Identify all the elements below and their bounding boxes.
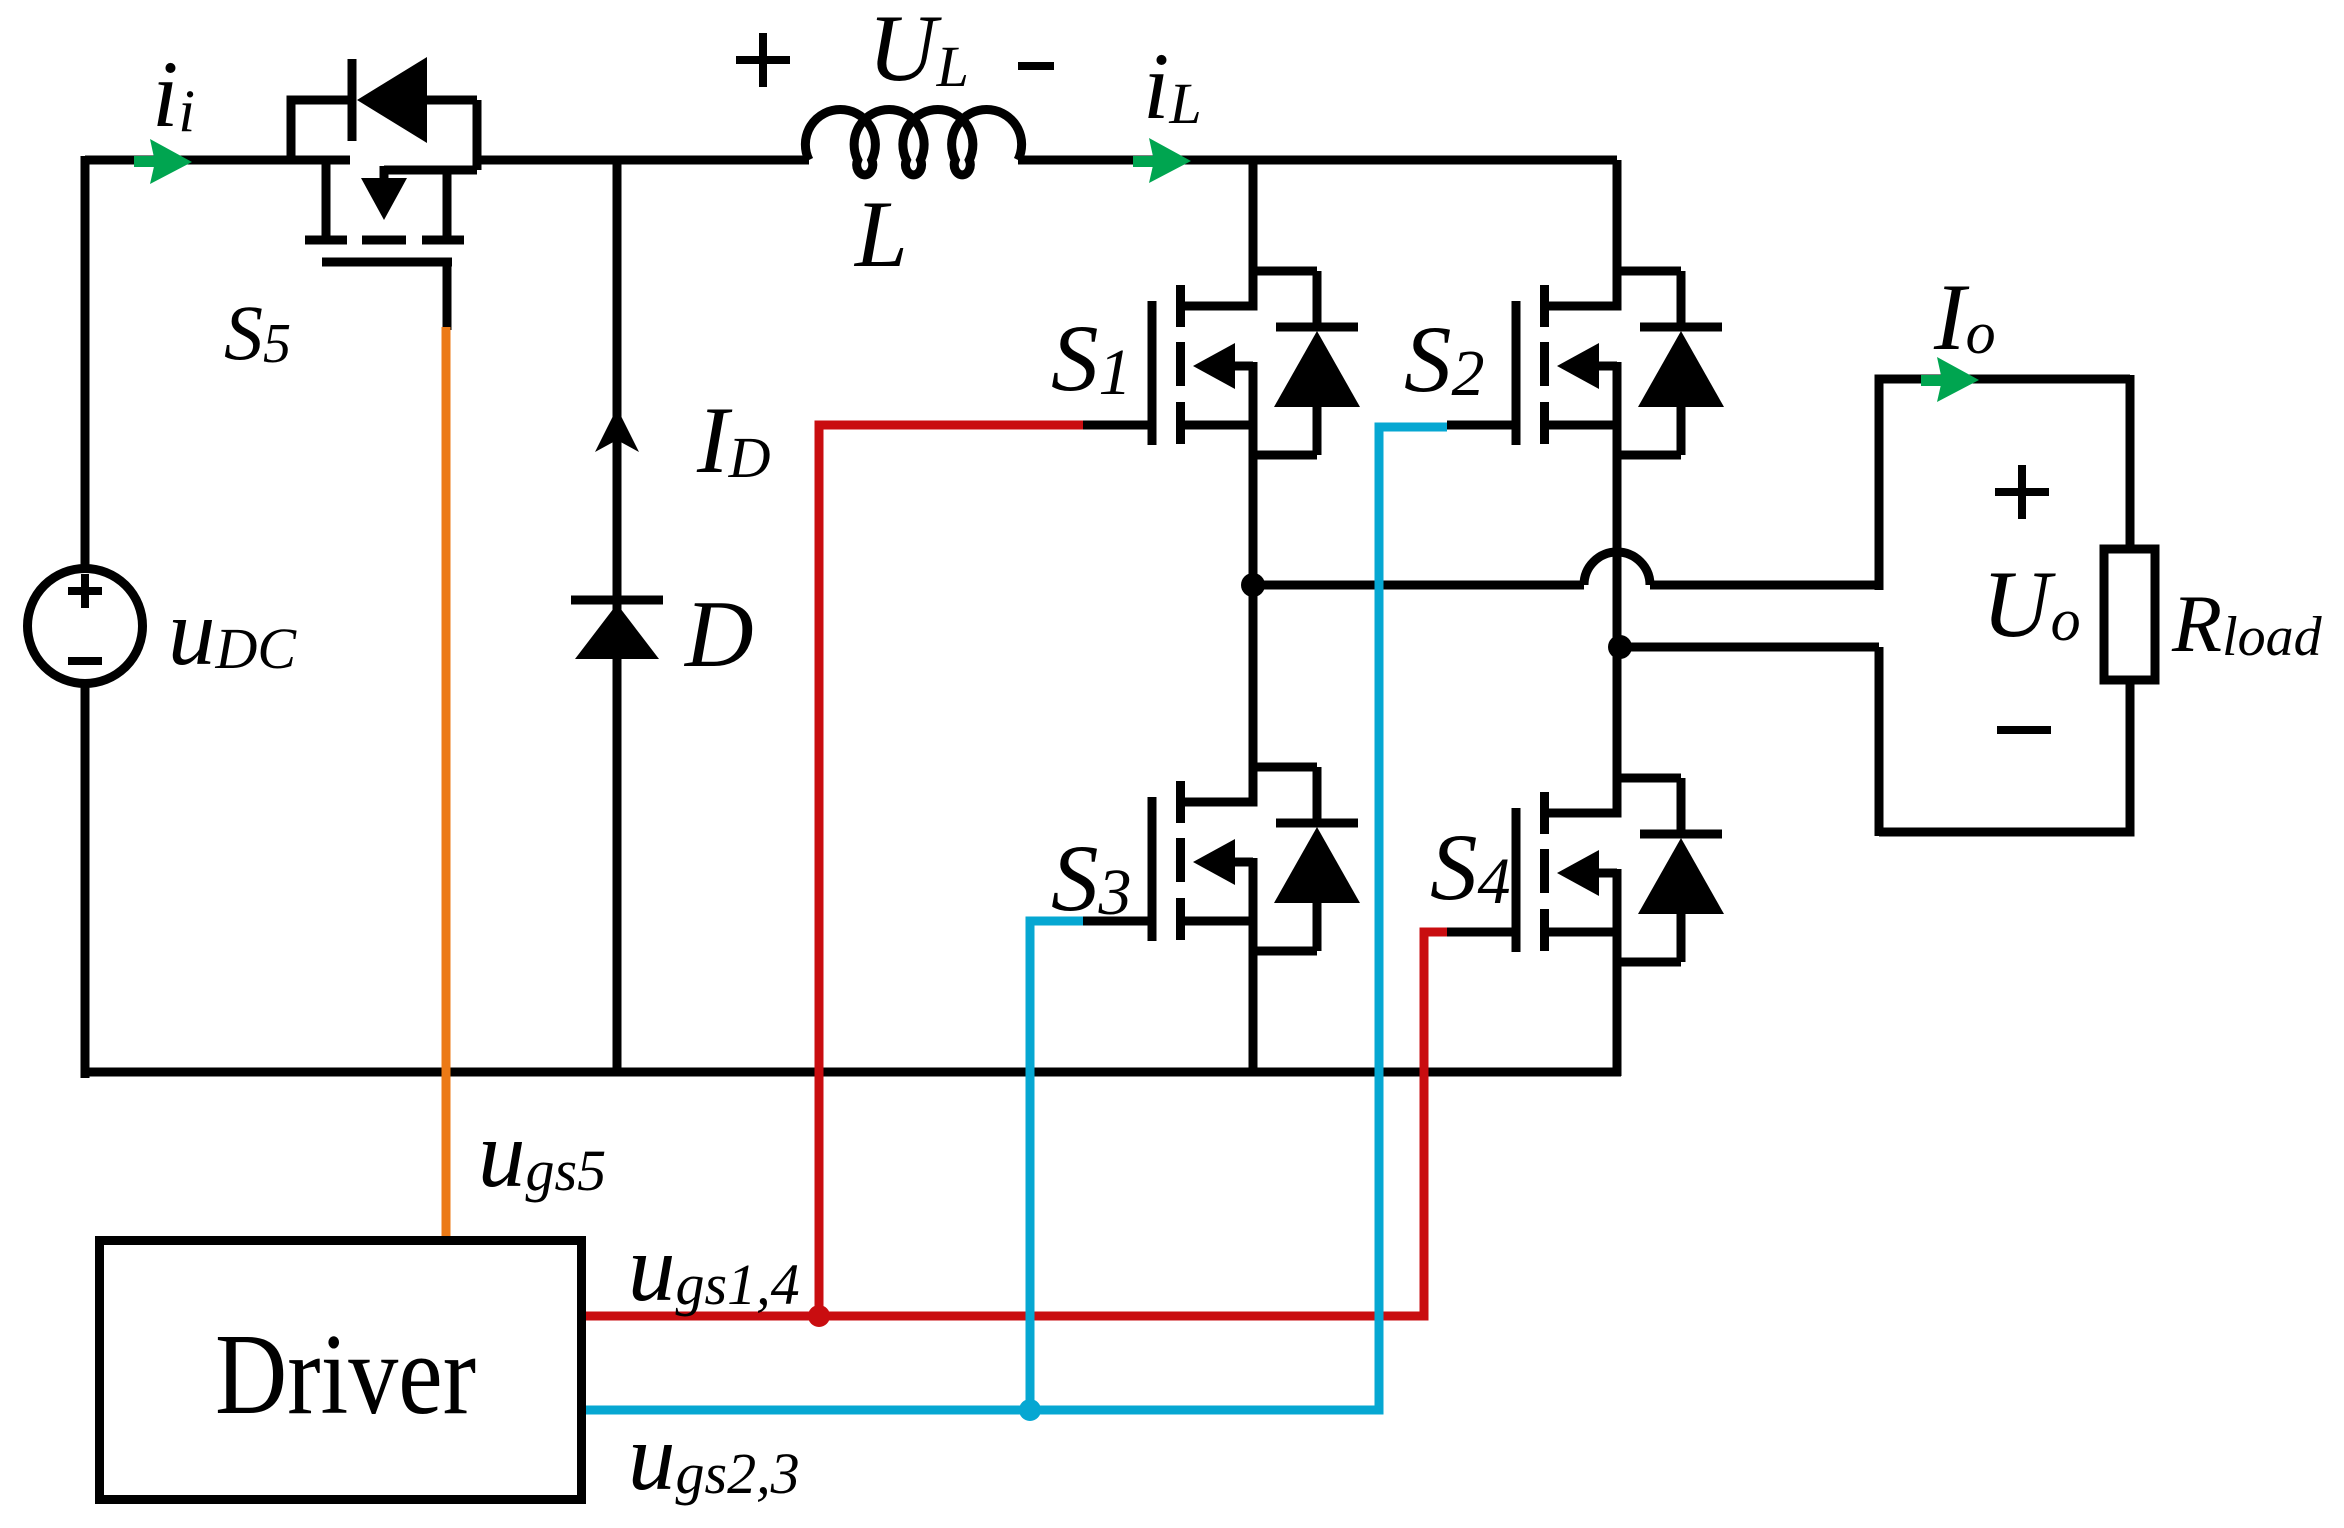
wire S4 source to bottom rail [1613, 932, 1622, 1076]
wire bridge left leg upper (S1 drain) [1249, 160, 1258, 306]
driver box [100, 1241, 582, 1500]
wire S2 source to S4 drain [1613, 425, 1622, 813]
diode D branch wire [613, 160, 622, 1072]
wire top rail inductor to bridge [1018, 156, 1617, 165]
diode of S5 left leg [291, 100, 352, 164]
transistor S3 [1083, 767, 1360, 951]
diode of S5 right leg [427, 100, 477, 170]
svg-text:L: L [853, 181, 908, 287]
transistor S5 gate bar [322, 258, 452, 267]
diode of S5 cathode bar [348, 59, 357, 141]
wire top rail to inductor [477, 156, 809, 165]
label plus of Uo [1995, 465, 2049, 519]
node left midpoint junction [1241, 573, 1265, 597]
wire load loop upper left [1879, 379, 2130, 590]
transistor S5 arrow [380, 166, 389, 178]
voltage source uDC [28, 569, 143, 684]
current arrow ii green [134, 139, 192, 184]
wire left vertical input top [81, 156, 90, 568]
wire load loop right lower [1879, 680, 2130, 832]
node cyan junction [1019, 1399, 1041, 1421]
node red junction [808, 1305, 830, 1327]
diode D triangle [575, 604, 659, 659]
wire right midpoint to load lower terminal [1620, 643, 1879, 652]
wire left midpoint to hop [1253, 581, 1584, 590]
label minus of Uo [1997, 726, 2051, 734]
wire load loop right upper [2126, 375, 2135, 549]
label minus of UL [1018, 62, 1054, 70]
wire hop to load upper terminal [1650, 581, 1879, 590]
resistor Rload [2104, 549, 2155, 680]
transistor S5 channel dashes [305, 236, 464, 245]
current arrow iL green [1133, 138, 1191, 183]
svg-text:Driver: Driver [215, 1311, 476, 1438]
transistor S1 [1083, 271, 1360, 455]
inductor L [805, 109, 1021, 174]
diode D cathode bar [571, 596, 663, 605]
wire S3 source to bottom rail [1249, 921, 1258, 1076]
wire left vertical input bottom [81, 684, 90, 1078]
transistor S5 gate lead [443, 262, 452, 330]
current arrow Io green [1921, 357, 1979, 402]
wire S1 source to S3 drain [1249, 425, 1258, 802]
current arrow ID [595, 408, 639, 452]
wire S5 body-tie segment [384, 166, 477, 175]
gate wire ugs1,4 red [586, 425, 1447, 1316]
svg-text:D: D [683, 581, 754, 687]
gate wire ugs2,3 cyan [586, 427, 1447, 1410]
transistor S5 source stub [443, 170, 452, 240]
label plus of UL [736, 33, 790, 87]
node right midpoint junction [1608, 635, 1632, 659]
gate wire ugs5 orange [442, 327, 451, 1236]
wire hop arc over right leg [1584, 552, 1650, 585]
transistor S5 drain stub [322, 160, 331, 240]
wire load loop lower left [1875, 647, 1884, 836]
transistor S4 [1447, 778, 1724, 962]
wire bridge right leg upper (S2 drain) [1613, 160, 1622, 306]
transistor S2 [1447, 271, 1724, 455]
wire top rail left segment [85, 156, 350, 165]
diode of S5 triangle [357, 57, 427, 143]
wire bottom rail [85, 1068, 1621, 1077]
